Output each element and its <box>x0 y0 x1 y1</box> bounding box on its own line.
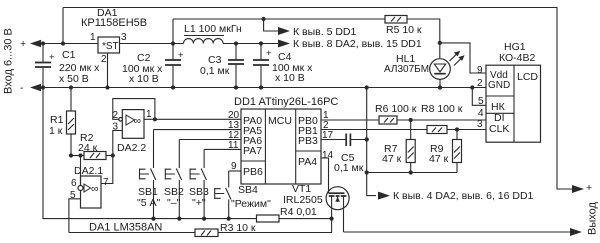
svg-text:PA7: PA7 <box>243 145 262 157</box>
button SB4 <box>215 171 271 221</box>
svg-text:DA2.1: DA2.1 <box>74 165 103 177</box>
svg-text:DA1 LM358AN: DA1 LM358AN <box>89 222 162 234</box>
wire HK pin tie to ground <box>472 88 486 106</box>
svg-text:2: 2 <box>101 54 107 65</box>
svg-text:К выв. 8 DA2, выв. 15 DD1: К выв. 8 DA2, выв. 15 DD1 <box>293 38 422 50</box>
node output plus arrow <box>572 185 584 193</box>
button SB2 <box>164 140 241 221</box>
svg-text:LCD: LCD <box>517 71 538 83</box>
wire top frame (input plus pass-through to output plus) <box>63 8 573 190</box>
svg-text:АЛ307БМ: АЛ307БМ <box>384 64 429 75</box>
svg-text:3: 3 <box>477 119 483 130</box>
svg-text:R4 0,01: R4 0,01 <box>280 206 317 218</box>
svg-text:1: 1 <box>146 109 152 120</box>
svg-text:PA4: PA4 <box>298 156 317 168</box>
svg-text:24 к: 24 к <box>78 142 98 154</box>
resistor R4 shunt <box>257 206 317 222</box>
svg-text:К выв. 4 DA2, выв. 6, 16 DD1: К выв. 4 DA2, выв. 6, 16 DD1 <box>393 190 534 202</box>
node output minus arrow <box>570 228 582 236</box>
wire DA2.1 pin6 riser to R2 node <box>80 156 82 186</box>
wire input plus rail <box>40 43 98 45</box>
svg-text:Выход: Выход <box>587 202 599 235</box>
node input plus arrow <box>30 40 41 47</box>
transistor VT1 <box>283 158 349 210</box>
svg-text:КР1158ЕН5В: КР1158ЕН5В <box>81 17 147 29</box>
resistor R3 <box>195 222 256 237</box>
svg-text:DD1 ATtiny26L-16PC: DD1 ATtiny26L-16PC <box>234 96 338 108</box>
op-amp DA2.1 <box>74 165 103 208</box>
wire DA2.2 output to PA0 <box>144 118 241 120</box>
svg-text:CLK: CLK <box>489 123 509 135</box>
node junction plus rail at frame drop <box>61 41 65 45</box>
wire VT1 source to shunt node <box>331 209 333 218</box>
wire frame corner drop to plus rail <box>62 8 64 44</box>
resistor R6 <box>321 103 486 124</box>
svg-text:R6 100 к: R6 100 к <box>375 103 417 115</box>
svg-text:47 к: 47 к <box>382 153 402 165</box>
button SB1 <box>137 130 241 221</box>
svg-text:PB3: PB3 <box>298 135 318 147</box>
svg-text:+: + <box>586 182 592 194</box>
resistor R1 <box>49 85 76 155</box>
node branch to 5 DD1 <box>262 17 266 21</box>
svg-text:2: 2 <box>477 78 483 89</box>
capacitor C4 <box>260 44 262 60</box>
svg-text:14: 14 <box>322 150 334 161</box>
svg-text:0,1 мк: 0,1 мк <box>334 162 364 174</box>
svg-text:+: + <box>266 48 272 59</box>
svg-text:6: 6 <box>71 178 77 189</box>
svg-text:Вход 6...30 В: Вход 6...30 В <box>3 28 15 94</box>
wire VT1 drain to output minus <box>343 209 345 232</box>
svg-text:MCU: MCU <box>268 115 292 127</box>
svg-text:L1 100 мкГн: L1 100 мкГн <box>184 23 242 35</box>
svg-text:GND: GND <box>488 80 510 91</box>
svg-text:7: 7 <box>103 177 109 188</box>
op-amp DA2.2 <box>117 110 146 154</box>
capacitor C2 <box>172 44 174 60</box>
regulator DA1 <box>98 37 120 53</box>
resistor R5 <box>385 16 422 37</box>
resistor R8 <box>321 103 486 134</box>
svg-text:1 к: 1 к <box>49 125 63 137</box>
capacitor C5 <box>321 134 367 175</box>
svg-text:"Режим": "Режим" <box>231 198 271 210</box>
svg-text:К выв. 5 DD1: К выв. 5 DD1 <box>293 26 356 38</box>
node input minus arrow <box>30 84 41 91</box>
inductor L1 <box>184 39 224 44</box>
svg-text:∞: ∞ <box>134 115 142 127</box>
resistor R7 <box>382 118 415 175</box>
svg-text:9: 9 <box>231 161 237 172</box>
svg-text:*ST: *ST <box>102 41 119 52</box>
capacitor C3 <box>235 44 237 60</box>
svg-text:DA2.2: DA2.2 <box>117 142 146 154</box>
wire R7 R9 bottom tie <box>367 172 457 174</box>
svg-text:-: - <box>20 82 24 94</box>
LED HL1 <box>384 51 465 80</box>
svg-text:+: + <box>20 38 26 50</box>
capacitor C1 <box>42 44 44 63</box>
resistor R2 <box>69 132 113 160</box>
wire ground bus right part <box>279 218 332 220</box>
wire LED cathode to ground rail <box>439 79 441 87</box>
wire DA2.2 pin3 riser from DA2.1 output <box>101 131 122 184</box>
svg-text:КО-4В2: КО-4В2 <box>499 52 536 64</box>
wire DA2.1 pin5 to sense line <box>69 199 81 233</box>
svg-text:∞: ∞ <box>91 183 99 195</box>
svg-text:9: 9 <box>477 65 483 76</box>
svg-text:x 10 В: x 10 В <box>129 73 159 85</box>
svg-text:SB4: SB4 <box>238 184 258 196</box>
node LED anode junction <box>438 41 442 45</box>
svg-text:"5 А": "5 А" <box>137 197 160 209</box>
resistor R9 <box>429 127 462 172</box>
svg-text:+: + <box>49 52 55 63</box>
svg-text:C1: C1 <box>62 49 76 61</box>
svg-text:IRL2505: IRL2505 <box>283 194 323 206</box>
wire rail after L1 <box>223 43 280 45</box>
svg-text:PB6: PB6 <box>243 166 263 178</box>
svg-text:3: 3 <box>121 32 127 43</box>
svg-text:R5 10 к: R5 10 к <box>386 24 422 36</box>
MCU DD1 <box>234 96 338 184</box>
wire DA2.2 feedback <box>113 99 155 120</box>
wire output minus <box>344 231 572 233</box>
wire DA1 pin2 to ground rail <box>107 53 109 88</box>
LCD HG1 <box>486 41 541 142</box>
wire Vdd feed to HG1 pin 9 <box>440 43 486 73</box>
wire minus rail (GND) <box>40 87 486 89</box>
wire R5 line <box>173 18 385 20</box>
svg-text:47 к: 47 к <box>429 153 449 165</box>
button SB3 <box>189 149 241 220</box>
svg-text:4: 4 <box>478 108 484 119</box>
svg-text:"–": "–" <box>167 197 181 209</box>
svg-text:R3 10 к: R3 10 к <box>220 222 256 234</box>
svg-text:"+": "+" <box>192 197 206 209</box>
svg-text:R8 100 к: R8 100 к <box>421 103 463 115</box>
wire left frame drop to ground bus <box>43 88 257 219</box>
svg-text:+: + <box>178 50 184 61</box>
wire riser to R5 line <box>172 19 174 44</box>
wire DA1 output rail <box>120 43 184 45</box>
svg-text:x 10 В: x 10 В <box>275 72 305 84</box>
wire ground vertical <box>367 88 376 196</box>
node arrow К выв. 8 DA2 <box>278 40 290 48</box>
svg-text:1: 1 <box>90 32 96 43</box>
svg-text:x 50 В: x 50 В <box>59 73 89 85</box>
wire sense line with R3 <box>69 232 195 234</box>
node arrow К выв. 4 DA2 <box>378 192 390 200</box>
svg-text:0,1 мк: 0,1 мк <box>200 65 230 77</box>
